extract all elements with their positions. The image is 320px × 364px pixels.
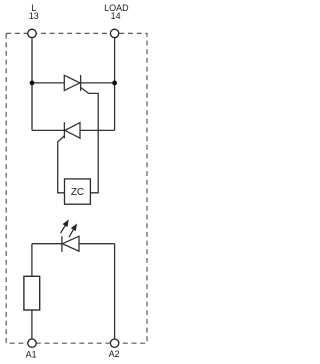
wire: lower SCR branch horizontal <box>32 129 64 131</box>
LED light emission arrows <box>61 221 77 237</box>
thyristor SCR1 (upper, anode left) <box>64 75 80 91</box>
thyristor SCR2 (lower, anode right) <box>64 122 80 138</box>
wire: left vertical from terminal L down to lower SCR line <box>31 36 33 130</box>
junction node left (upper branch / left wire) <box>30 81 35 86</box>
wire: LED left corner down to resistor <box>31 244 33 277</box>
wire: LED right corner down to terminal A2 <box>114 244 116 340</box>
svg-text:14: 14 <box>111 11 121 21</box>
LED D1 (cathode left) <box>62 236 79 252</box>
terminal A2 <box>110 339 118 347</box>
svg-text:13: 13 <box>29 11 39 21</box>
terminal L/13 <box>28 29 36 37</box>
wire: SCR1 gate to ZC right side <box>81 87 99 192</box>
terminal A1 <box>28 339 36 347</box>
svg-text:A1: A1 <box>26 349 37 359</box>
svg-text:A2: A2 <box>109 349 120 359</box>
zero-cross detector block ZC <box>65 179 91 204</box>
wire: LED branch horizontal <box>32 243 62 245</box>
wire: right vertical from terminal LOAD down to lower SCR line <box>114 36 116 130</box>
wire: resistor down to terminal A1 <box>31 310 33 340</box>
resistor R1 <box>24 276 40 310</box>
svg-text:ZC: ZC <box>71 187 84 198</box>
relay enclosure dashed outline <box>6 33 147 343</box>
wire: SCR2 gate to ZC left side <box>58 136 65 193</box>
terminal LOAD/14 <box>110 29 118 37</box>
wire: upper SCR branch horizontal <box>32 82 64 84</box>
junction node right (upper branch / right wire) <box>112 81 117 86</box>
